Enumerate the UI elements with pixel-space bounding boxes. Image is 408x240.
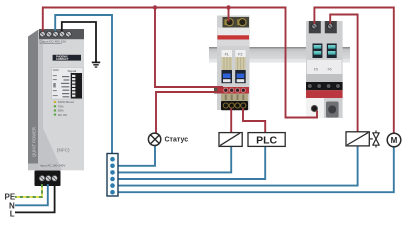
svg-text:PLC: PLC (256, 134, 277, 146)
svg-text:PE: PE (5, 193, 16, 202)
svg-text:(NFC): (NFC) (57, 148, 70, 153)
svg-text:F1: F1 (225, 53, 229, 57)
svg-text:L: L (10, 210, 15, 219)
svg-text:F5: F5 (314, 68, 318, 72)
svg-text:Signal: Signal (68, 69, 77, 73)
svg-text:Input AC 100-240V: Input AC 100-240V (40, 164, 65, 168)
svg-text:CONTACT: CONTACT (56, 57, 69, 61)
svg-text:F6: F6 (328, 68, 332, 72)
svg-text:F2: F2 (238, 53, 242, 57)
svg-text:Статус: Статус (165, 136, 189, 143)
svg-text:DC OK: DC OK (58, 113, 68, 117)
svg-text:QUINT POWER: QUINT POWER (32, 127, 37, 157)
svg-text:M: M (391, 136, 398, 145)
svg-text:Output DC 48V 10A: Output DC 48V 10A (40, 40, 67, 44)
